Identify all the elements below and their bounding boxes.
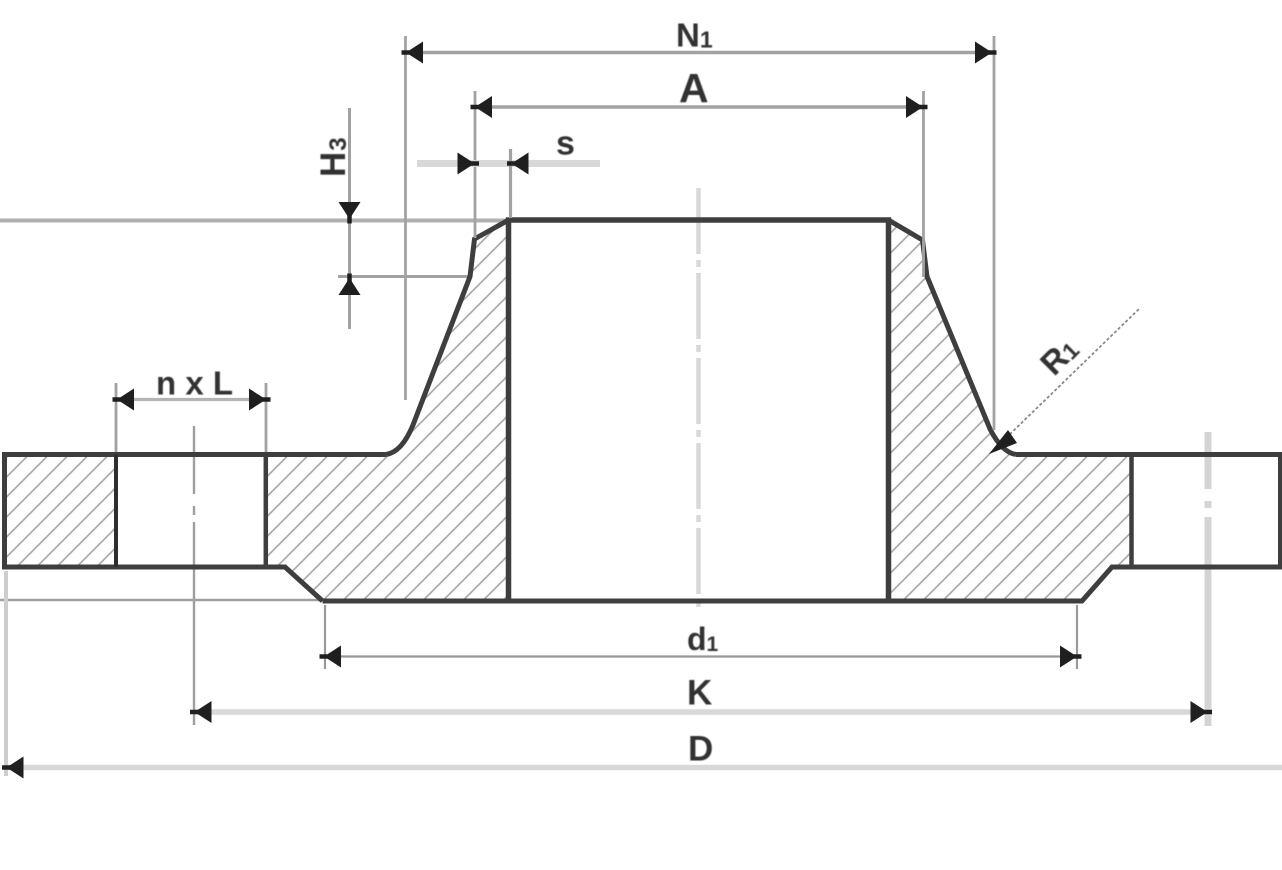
dimension s: line band	[417, 160, 600, 167]
label D	[688, 730, 713, 769]
dimension A: left arrow	[475, 96, 492, 118]
dimension n x L: left extension line	[115, 383, 118, 452]
dimension N1: right extension line	[993, 36, 996, 430]
dimension A: line	[475, 105, 923, 109]
dimension K: line	[195, 709, 1208, 715]
dimension s: right arrow	[512, 153, 529, 175]
dimension A: right arrow	[906, 96, 923, 118]
label N1	[676, 17, 713, 54]
center line: left bolt hole	[193, 426, 195, 725]
label n x L	[156, 365, 233, 402]
dimension n x L: right extension line	[265, 383, 268, 452]
dimension d1: right arrow	[1060, 646, 1077, 668]
hatched section: middle-left hub+plate	[266, 220, 509, 601]
dimension K: left arrow	[195, 701, 212, 723]
svg-text:D: D	[688, 730, 713, 769]
hatched section: left outer plate	[5, 455, 117, 568]
flange outline: plate bottom left + chamfer	[2, 567, 323, 601]
leader R1: arrow	[989, 430, 1017, 454]
hatched section: middle-right hub+plate	[889, 220, 1132, 601]
dimension K: right arrow	[1191, 701, 1208, 723]
dimension s: left arrow	[458, 153, 475, 175]
center line: main axis	[696, 188, 701, 610]
dimension D: left arrow	[7, 757, 24, 779]
label s	[556, 125, 575, 163]
leader R1: line	[1006, 308, 1140, 438]
dimension d1: left extension line	[324, 605, 326, 669]
label d1	[687, 621, 719, 657]
flange outline: bottom face + right chamfer + plate bottom right	[323, 567, 1282, 601]
bolt hole right: left edge	[1129, 455, 1134, 568]
dimension N1: left arrow	[406, 42, 423, 64]
dimension H3: up arrow	[339, 278, 361, 295]
svg-text:n x L: n x L	[156, 365, 233, 402]
bolt hole left: left edge	[114, 455, 118, 568]
dimension d1: left arrow	[324, 646, 341, 668]
flange outline: bore right edge	[886, 218, 892, 603]
dimension d1: line	[324, 655, 1077, 657]
label R1	[1033, 330, 1085, 382]
dimension A: left extension line	[474, 91, 477, 238]
center line: right bolt hole	[1205, 432, 1212, 726]
dimension d1: right extension line	[1076, 605, 1078, 669]
dimension H3: vertical line	[348, 108, 351, 329]
label H3	[314, 137, 353, 177]
bolt hole left: right edge	[264, 455, 269, 568]
flange outline: plate top right	[1016, 452, 1282, 457]
dimension n x L: left arrow	[117, 389, 134, 411]
extension line: chamfer bottom level y=277	[338, 275, 470, 278]
dimension s: right extension line	[509, 149, 512, 218]
flange outline: bore left edge	[506, 218, 512, 603]
dimension D: line	[7, 765, 1282, 771]
flange outline: left outer edge	[2, 453, 7, 569]
flange outline: hub right profile	[889, 220, 1017, 455]
flange outline: plate top left	[2, 452, 386, 457]
dimension H3: down arrow	[339, 202, 361, 219]
extension line: top face level y=220	[0, 219, 507, 223]
dimension n x L: line	[117, 398, 266, 401]
svg-text:s: s	[556, 125, 575, 163]
flange outline: hub left profile	[386, 220, 509, 455]
label A	[679, 65, 709, 111]
dimension A: right extension line	[922, 91, 925, 277]
label K	[687, 674, 712, 713]
flange outline: pipe top face	[506, 217, 891, 223]
dimension n x L: right arrow	[249, 389, 266, 411]
dimension N1: left extension line	[404, 36, 407, 400]
arrow tail stubs	[2, 53, 1212, 768]
svg-text:K: K	[687, 674, 712, 713]
extension line: bottom face level y=600	[0, 599, 322, 601]
dimension N1: line	[406, 51, 992, 55]
dimension N1: right arrow	[975, 42, 992, 64]
bolt hole right: right edge at image border	[1278, 455, 1282, 568]
dimension D: left extension line	[4, 571, 8, 776]
svg-text:A: A	[679, 65, 709, 111]
